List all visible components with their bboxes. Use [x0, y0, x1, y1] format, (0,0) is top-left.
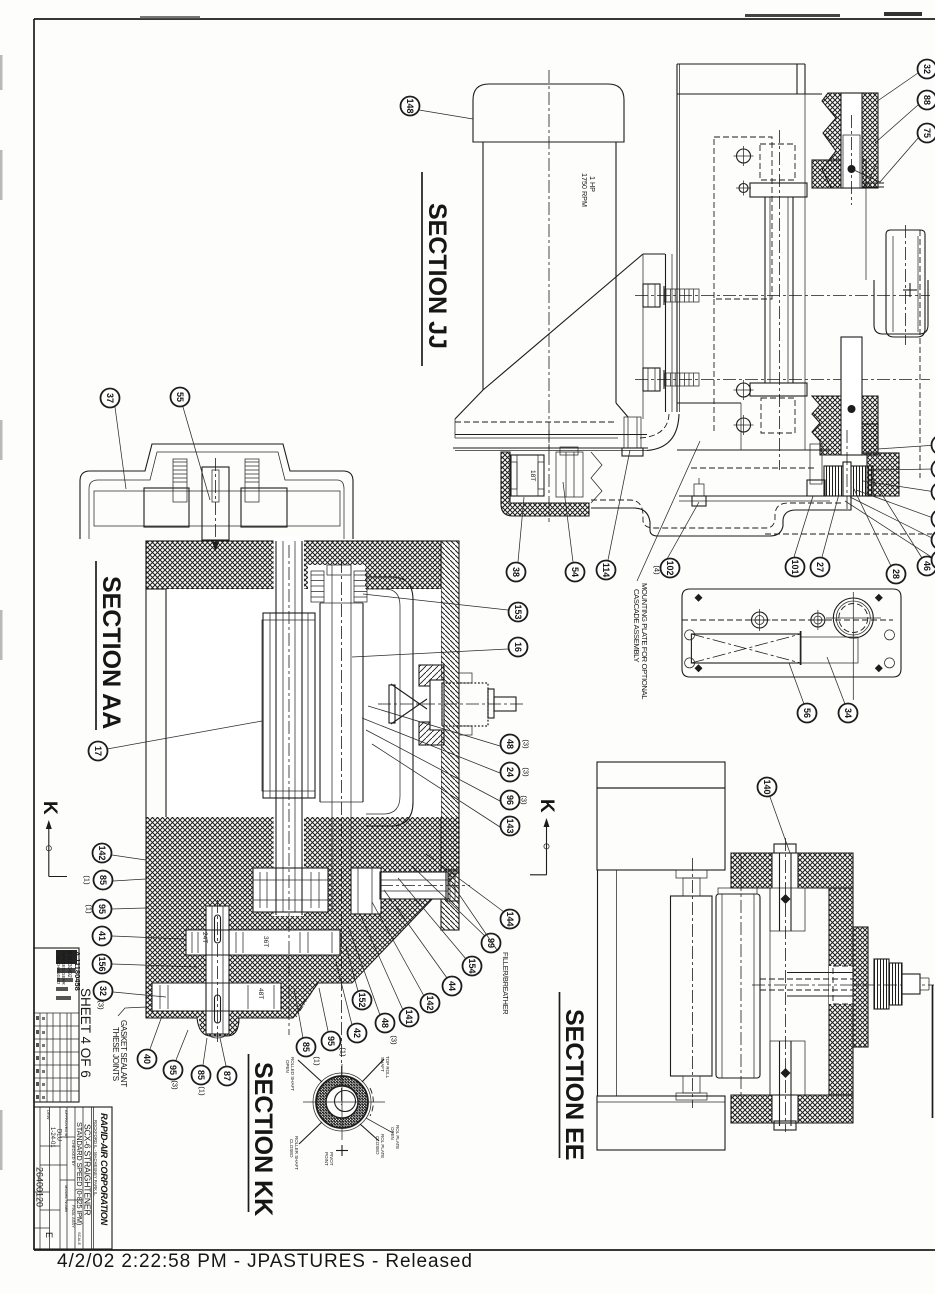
svg-text:POINT: POINT	[324, 1152, 329, 1166]
svg-text:75: 75	[922, 128, 932, 138]
svg-text:APPROVED BY: APPROVED BY	[64, 1110, 69, 1139]
svg-text:153: 153	[513, 604, 523, 619]
svg-text:143: 143	[505, 818, 515, 833]
svg-text:DRW: DRW	[46, 1110, 51, 1120]
svg-text:SCALE: SCALE	[77, 1232, 82, 1245]
svg-text:156: 156	[97, 956, 107, 971]
svg-text:42: 42	[352, 1028, 362, 1038]
svg-text:18T: 18T	[529, 470, 536, 481]
svg-text:142: 142	[97, 845, 107, 860]
svg-text:38: 38	[511, 567, 521, 577]
svg-text:48: 48	[505, 739, 515, 749]
svg-text:54: 54	[570, 567, 580, 577]
svg-text:114: 114	[601, 563, 611, 578]
svg-text:(3): (3)	[522, 767, 531, 777]
svg-text:96: 96	[505, 795, 515, 805]
svg-text:ROCKFORD IL - MACHESNEY PARK: ROCKFORD IL - MACHESNEY PARK IL	[93, 1120, 98, 1196]
svg-text:24T: 24T	[201, 932, 208, 943]
svg-text:32: 32	[922, 64, 932, 74]
svg-text:(1): (1)	[313, 1056, 322, 1066]
svg-text:142: 142	[425, 995, 435, 1010]
svg-text:95: 95	[326, 1036, 336, 1046]
svg-text:SECTION JJ: SECTION JJ	[423, 203, 451, 349]
svg-text:RAPID-AIR CORPORATION: RAPID-AIR CORPORATION	[99, 1113, 109, 1226]
svg-text:17: 17	[93, 746, 103, 756]
svg-text:(3): (3)	[97, 1000, 106, 1010]
svg-text:37: 37	[105, 393, 115, 403]
svg-text:OPEN: OPEN	[285, 1060, 290, 1073]
svg-text:34: 34	[843, 708, 853, 718]
svg-text:140: 140	[762, 779, 772, 794]
svg-text:SECTION KK: SECTION KK	[249, 1062, 277, 1216]
svg-text:32: 32	[98, 986, 108, 996]
svg-text:E: E	[44, 1232, 54, 1238]
svg-text:26400120: 26400120	[35, 1167, 45, 1207]
svg-text:(3): (3)	[520, 795, 529, 805]
svg-text:SHEET 4 OF 6: SHEET 4 OF 6	[78, 988, 93, 1078]
svg-text:27: 27	[815, 562, 825, 572]
svg-text:(3): (3)	[522, 739, 531, 749]
svg-text:56: 56	[802, 708, 812, 718]
svg-text:85: 85	[301, 1042, 311, 1052]
svg-text:THESE JOINTS: THESE JOINTS	[111, 1027, 120, 1081]
svg-text:16: 16	[513, 642, 523, 652]
svg-text:95: 95	[97, 904, 107, 914]
svg-text:148: 148	[405, 98, 415, 113]
svg-text:(4): (4)	[653, 565, 662, 575]
svg-text:CLOSED: CLOSED	[375, 1136, 380, 1155]
svg-text:101: 101	[790, 559, 800, 574]
svg-text:1-24-01: 1-24-01	[49, 1127, 55, 1148]
svg-text:CLOSED: CLOSED	[289, 1139, 294, 1158]
svg-text:SHAFT: SHAFT	[380, 1057, 385, 1072]
svg-text:(3): (3)	[171, 1080, 180, 1090]
svg-text:K: K	[536, 799, 557, 813]
svg-text:44: 44	[447, 981, 457, 991]
svg-text:87: 87	[222, 1071, 232, 1081]
svg-text:SECTION EE: SECTION EE	[560, 1009, 588, 1160]
svg-text:152: 152	[357, 992, 367, 1007]
svg-text:1750 RPM: 1750 RPM	[580, 173, 589, 207]
svg-text:40: 40	[142, 1054, 152, 1064]
svg-text:95: 95	[168, 1065, 178, 1075]
svg-text:C 83 CHANGED: C 83 CHANGED	[56, 951, 61, 985]
svg-text:144: 144	[505, 911, 515, 926]
svg-text:MODEL NUMB: MODEL NUMB	[64, 1185, 69, 1212]
svg-text:(3): (3)	[390, 1035, 399, 1045]
svg-text:(1): (1)	[339, 1047, 348, 1057]
svg-text:102: 102	[665, 560, 675, 575]
svg-text:FILLER/BREATHER: FILLER/BREATHER	[501, 952, 510, 1014]
svg-text:24: 24	[505, 767, 515, 777]
svg-text:46: 46	[922, 561, 932, 571]
svg-text:K: K	[39, 801, 60, 815]
svg-text:(1): (1)	[83, 875, 92, 885]
svg-text:(1): (1)	[85, 904, 94, 914]
svg-text:OPEN: OPEN	[390, 1127, 395, 1140]
svg-text:154: 154	[467, 958, 477, 973]
svg-text:41: 41	[97, 931, 107, 941]
svg-text:4/2/02 2:22:58 PM - JPASTURES: 4/2/02 2:22:58 PM - JPASTURES - Released	[57, 1251, 473, 1272]
svg-text:36T: 36T	[262, 936, 269, 947]
svg-text:CASCADE ASSEMBLY: CASCADE ASSEMBLY	[632, 589, 641, 662]
svg-text:28: 28	[891, 569, 901, 579]
svg-text:141: 141	[404, 1009, 414, 1024]
svg-text:48T: 48T	[257, 988, 264, 999]
svg-text:CHECKED BY: CHECKED BY	[71, 1140, 76, 1166]
svg-text:SECTION AA: SECTION AA	[97, 576, 125, 729]
svg-text:(1): (1)	[198, 1086, 207, 1096]
svg-text:88: 88	[922, 95, 932, 105]
svg-text:85: 85	[196, 1070, 206, 1080]
svg-text:85: 85	[98, 875, 108, 885]
svg-text:FINAL ASSY: FINAL ASSY	[71, 1205, 76, 1228]
svg-text:DLU: DLU	[56, 1129, 62, 1141]
svg-text:55: 55	[175, 392, 185, 402]
svg-text:48: 48	[380, 1018, 390, 1028]
